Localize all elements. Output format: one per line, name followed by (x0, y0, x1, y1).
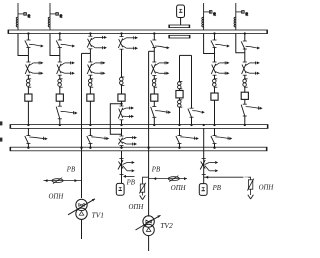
wire bay 5 to bus A (153, 117, 155, 124)
node bay 2 junction on main bus (59, 32, 61, 34)
wire bay 6 upper (214, 34, 216, 41)
node bay 7 junction on main bus (244, 32, 246, 34)
circuit breaker Q3 (bay 3) (87, 94, 94, 101)
wire bay 7 below breaker (244, 99, 246, 104)
wire bay 6 (214, 48, 216, 62)
busbar section A (middle) (10, 125, 268, 129)
node lower feeder on bus A (203, 124, 205, 126)
disconnector QS6.2 (coupler right leg) (188, 108, 205, 117)
wire coupler left leg (179, 89, 181, 91)
disconnector QS9.1 (bay 7 bus side) (241, 41, 260, 50)
wire TV2 feeder (crosses bus A, bus B) (148, 51, 150, 216)
wire bay 2 (59, 48, 61, 62)
svg-text:ОПН: ОПН (129, 204, 145, 211)
wire arrester branch (left of TV1) (44, 180, 82, 182)
current transformer TA3 (bay 3) (88, 79, 93, 87)
wire bay 3 bus A to disconnector (89, 128, 91, 135)
reactor L4 incomer (234, 3, 248, 30)
wire bay 1 (27, 75, 29, 79)
current transformer TA6a (coupler, above breaker) (178, 81, 183, 88)
wire arrester branch (right of TV2) (149, 178, 187, 180)
svg-text:ОПН: ОПН (259, 184, 275, 191)
voltage transformer TV1 (two windings) (68, 199, 95, 220)
wire bay 3 (89, 49, 91, 62)
circuit breaker Q5 (bay 5) (151, 94, 158, 101)
wire bay 1 to bus A (27, 101, 29, 124)
svg-text:РВ: РВ (212, 185, 221, 192)
wire bay 1 bus A to disconnector (27, 128, 29, 135)
ground arrow (OPN right) (248, 195, 254, 199)
reactor L2 incomer (48, 3, 62, 30)
wire bay 3 to bus B (89, 144, 91, 148)
svg-text:ОПН: ОПН (171, 185, 187, 192)
wire bay 4 upper (121, 34, 123, 37)
wire bay 4 (121, 49, 123, 77)
arrow tip right (PB branch TV2) (184, 177, 187, 180)
disconnector QS7.3 (bay 6, between sections) (211, 136, 232, 144)
disconnector QS2.1 (bay 2 bus side) (56, 40, 75, 48)
wire bay 1 (27, 48, 29, 62)
node bay 5 junction on main bus (153, 32, 155, 34)
node bay 3 junction on main bus (89, 32, 91, 34)
node bay 6 on bus A (213, 124, 215, 126)
arrow left into lower feeder node (205, 176, 208, 179)
node bay 6 terminal on bus B (213, 147, 215, 149)
wire OPN to ground (142, 192, 144, 195)
wire bay 6 bus A to disconnector (214, 128, 216, 135)
wire below TV1 (81, 219, 83, 239)
node bay 1 on bus A (27, 124, 29, 126)
wire lower feeder branch to OPN (right) (204, 177, 251, 180)
wire coupler top link (180, 54, 192, 56)
svg-text:РВ: РВ (126, 179, 135, 186)
disconnector QS1.3 (bay 1, between sections) (25, 136, 48, 144)
wire bay 5 (153, 48, 155, 62)
voltage transformer box (top centre) (177, 5, 185, 18)
disconnector QS6.1 (coupler, between sections) (176, 136, 199, 144)
disconnector QS5.2 with earthing switches (bay 5) (151, 61, 169, 75)
wire bay 4 below bus B to arrester box (121, 151, 123, 183)
disconnector QS5.3 (bay 5 feeder side) (151, 107, 171, 118)
node bay 4 junction on main bus (120, 32, 122, 34)
wire bay 5 branch to TV2 line (149, 50, 155, 52)
disconnector QS9.2 with earthing switches (bay 7) (242, 61, 260, 75)
svg-text:ТV1: ТV1 (92, 210, 105, 219)
wire OPN right to ground (250, 189, 252, 195)
disconnector QS4.3 with earthing switches (bay 4, between sections) (118, 136, 137, 146)
node bay 4 on bus B (120, 147, 122, 149)
wire bay 5 below breaker (153, 101, 155, 106)
wire below TV2 (148, 236, 150, 251)
disconnector QS3.1 with earthing switches (bay 3) (87, 36, 107, 49)
wire bay 7 (244, 87, 246, 94)
wire coupler left leg to bus B (179, 144, 181, 148)
node bay 5 terminal on bus A (153, 124, 155, 126)
wire bay 4 to bus B (121, 146, 123, 148)
wire coupler right leg to bus A (191, 118, 193, 125)
wire coupler left leg upper (179, 55, 181, 81)
wire bay 4 bypass (left leg) (110, 104, 121, 134)
wire bay 5 (153, 76, 155, 79)
surge arrester OPN (right) (247, 179, 253, 191)
arrester PB (rod gap) at TV1 (52, 178, 63, 184)
disconnector QS4.4 blades (bay 4 lower) (118, 159, 135, 175)
wire bay 6 (214, 87, 216, 94)
wire bay 6 to bus A (214, 100, 216, 124)
disconnector QS2.2 with earthing switches (bay 2) (57, 61, 75, 75)
current transformer TA7 (bay 6) (213, 79, 218, 87)
reactor L3 incomer (202, 3, 216, 30)
current transformer TA8 (bay 7) (243, 79, 248, 87)
disconnector QS7.1 (bay 6 bus side) (211, 40, 230, 48)
wire reactor L2 to bay 2 (50, 34, 60, 56)
wire reactor L1 to bay 1 (18, 34, 28, 56)
node bay 2 terminal on bus A (59, 124, 61, 126)
surge arrester OPN (TV2 neutral) (139, 183, 145, 194)
current transformer TA1 (bay 1) (26, 79, 31, 87)
node bay 4 on bus A (120, 124, 122, 126)
wire bay 6 (214, 75, 216, 79)
wire bay 3 upper (89, 34, 91, 37)
wire bay 4 (121, 85, 123, 94)
circuit breaker Q4 (bay 4) (118, 94, 125, 101)
wire bay 1 (27, 87, 29, 94)
wire bay 7 (244, 75, 246, 79)
voltage transformer TV2 (two windings) (136, 215, 161, 235)
svg-text:РВ: РВ (66, 167, 75, 174)
wire bay 2 (59, 87, 61, 94)
busbar section B (lower) (10, 147, 267, 151)
disconnector QS4.2 with earthing switches (bay 4) (118, 106, 134, 120)
ground arrow (OPN at TV2) (140, 195, 146, 199)
edge mark left 1 (0, 121, 2, 125)
wire bay 2 (59, 75, 61, 79)
svg-text:ОПН: ОПН (49, 194, 65, 201)
arrow head into TV1 line (75, 179, 78, 182)
disconnector QS5.1 (bay 5 bus side) (151, 40, 170, 49)
node bay 4 tap junction (120, 103, 122, 105)
svg-text:РВ: РВ (151, 167, 160, 174)
arrow left into bay 4 lower node (123, 175, 135, 178)
bus section bar below main bus (169, 35, 191, 38)
current transformer TA5 (bay 5) (152, 79, 157, 87)
circuit breaker Q6 (coupler) (176, 91, 183, 98)
wire coupler left leg bus A to disconnector (179, 128, 181, 135)
circuit breaker Q2 (bay 2) (56, 94, 63, 101)
wire stub to surge arrester OPN (left of TV2) (143, 177, 149, 184)
wire bay 3 to bus A (89, 101, 91, 124)
node bay 1 junction on main bus (27, 32, 29, 34)
wire bay 7 (244, 49, 246, 62)
node bay 1 on bus B (27, 147, 29, 149)
circuit breaker Q7 (bay 6) (211, 93, 218, 100)
wire bay 7 upper (244, 34, 246, 42)
wire TV1 feeder (crosses bus A, bus B) (81, 53, 83, 198)
circuit breaker Q1 (bay 1) (25, 94, 32, 101)
node TV1 line on bus B (80, 147, 82, 149)
disconnector QS3.3 (bay 3, between sections) (87, 136, 109, 144)
disconnector QS1.2 with earthing switches (bay 1) (25, 61, 43, 75)
node bay 3 on bus A (89, 124, 91, 126)
node coupler left leg on bus B (178, 147, 180, 149)
wire bay 5 upper (153, 34, 155, 41)
arrester PB box (lower feeder) (199, 184, 207, 196)
disconnector QS3.2 with earthing switches (bay 3) (87, 61, 105, 75)
wire coupler right leg (191, 55, 193, 108)
wire box to bar (180, 18, 182, 26)
disconnector QS8.1 blades (lower feeder) (200, 159, 218, 175)
edge mark left 2 (0, 138, 2, 142)
wire bay 2 upper (59, 34, 61, 41)
disconnector QS9.3 (bay 7 feeder side) (241, 104, 262, 116)
arrester PB (rod gap) at TV2 (168, 176, 179, 182)
node coupler left leg on bus A (178, 124, 180, 126)
wire bay 5 (153, 87, 155, 94)
wire bay 2 below breaker (59, 101, 61, 106)
node bay 3 on bus B (89, 147, 91, 149)
wire coupler left leg to bus A (179, 107, 181, 124)
bus section bar above main bus (169, 25, 190, 28)
wire bay 1 upper (27, 34, 29, 41)
node coupler right leg terminal on bus A (190, 124, 192, 126)
arrow tip left (PB branch TV1) (45, 179, 48, 182)
arrester PB box (bay 4) (116, 183, 124, 195)
current transformer TA6b (coupler, below breaker) (178, 100, 183, 107)
wire bay 4 to bus A (121, 120, 123, 125)
wire bay 4 below breaker (121, 101, 123, 106)
circuit breaker Q8 (bay 7) (241, 92, 248, 99)
wire bay 3 (89, 87, 91, 94)
wire bay 6 to bus B (214, 144, 216, 148)
disconnector QS4.1 with earthing switches (bay 4) (118, 36, 138, 49)
wire bay 3 (89, 75, 91, 79)
wire bay 7 to bus A (244, 116, 246, 125)
arrow head left toward TV2 line (153, 177, 156, 180)
disconnector QS1.1 (bay 1 bus side) (25, 40, 44, 48)
wire reactor L3 to bay 6 (204, 34, 215, 54)
wire bay 1 to bus B (27, 144, 29, 148)
wire reactor L4 to bay 7 (236, 34, 245, 53)
node bay 6 junction on main bus (213, 32, 215, 34)
wire bay 3 branch to TV1 line (82, 52, 91, 54)
wire lower feeder (crosses bus B) to arrester box (203, 128, 205, 183)
node TV2 line on bus B (147, 147, 149, 149)
disconnector QS7.2 with earthing switches (bay 6) (211, 61, 229, 75)
disconnector QS2.3 (bay 2 feeder side) (56, 106, 77, 119)
wire bay 4 bus A to disconnector (121, 128, 123, 136)
wire bay 2 to bus A (59, 119, 61, 125)
reactor L1 incomer (16, 3, 30, 30)
node bay 7 terminal on bus A (244, 124, 246, 126)
main busbar (top) (8, 30, 268, 34)
current transformer TA2 (bay 2) (58, 79, 63, 87)
wire coupler left leg (179, 98, 181, 100)
svg-text:ТV2: ТV2 (160, 221, 173, 230)
current transformer TA4 (bay 4) (120, 77, 125, 85)
